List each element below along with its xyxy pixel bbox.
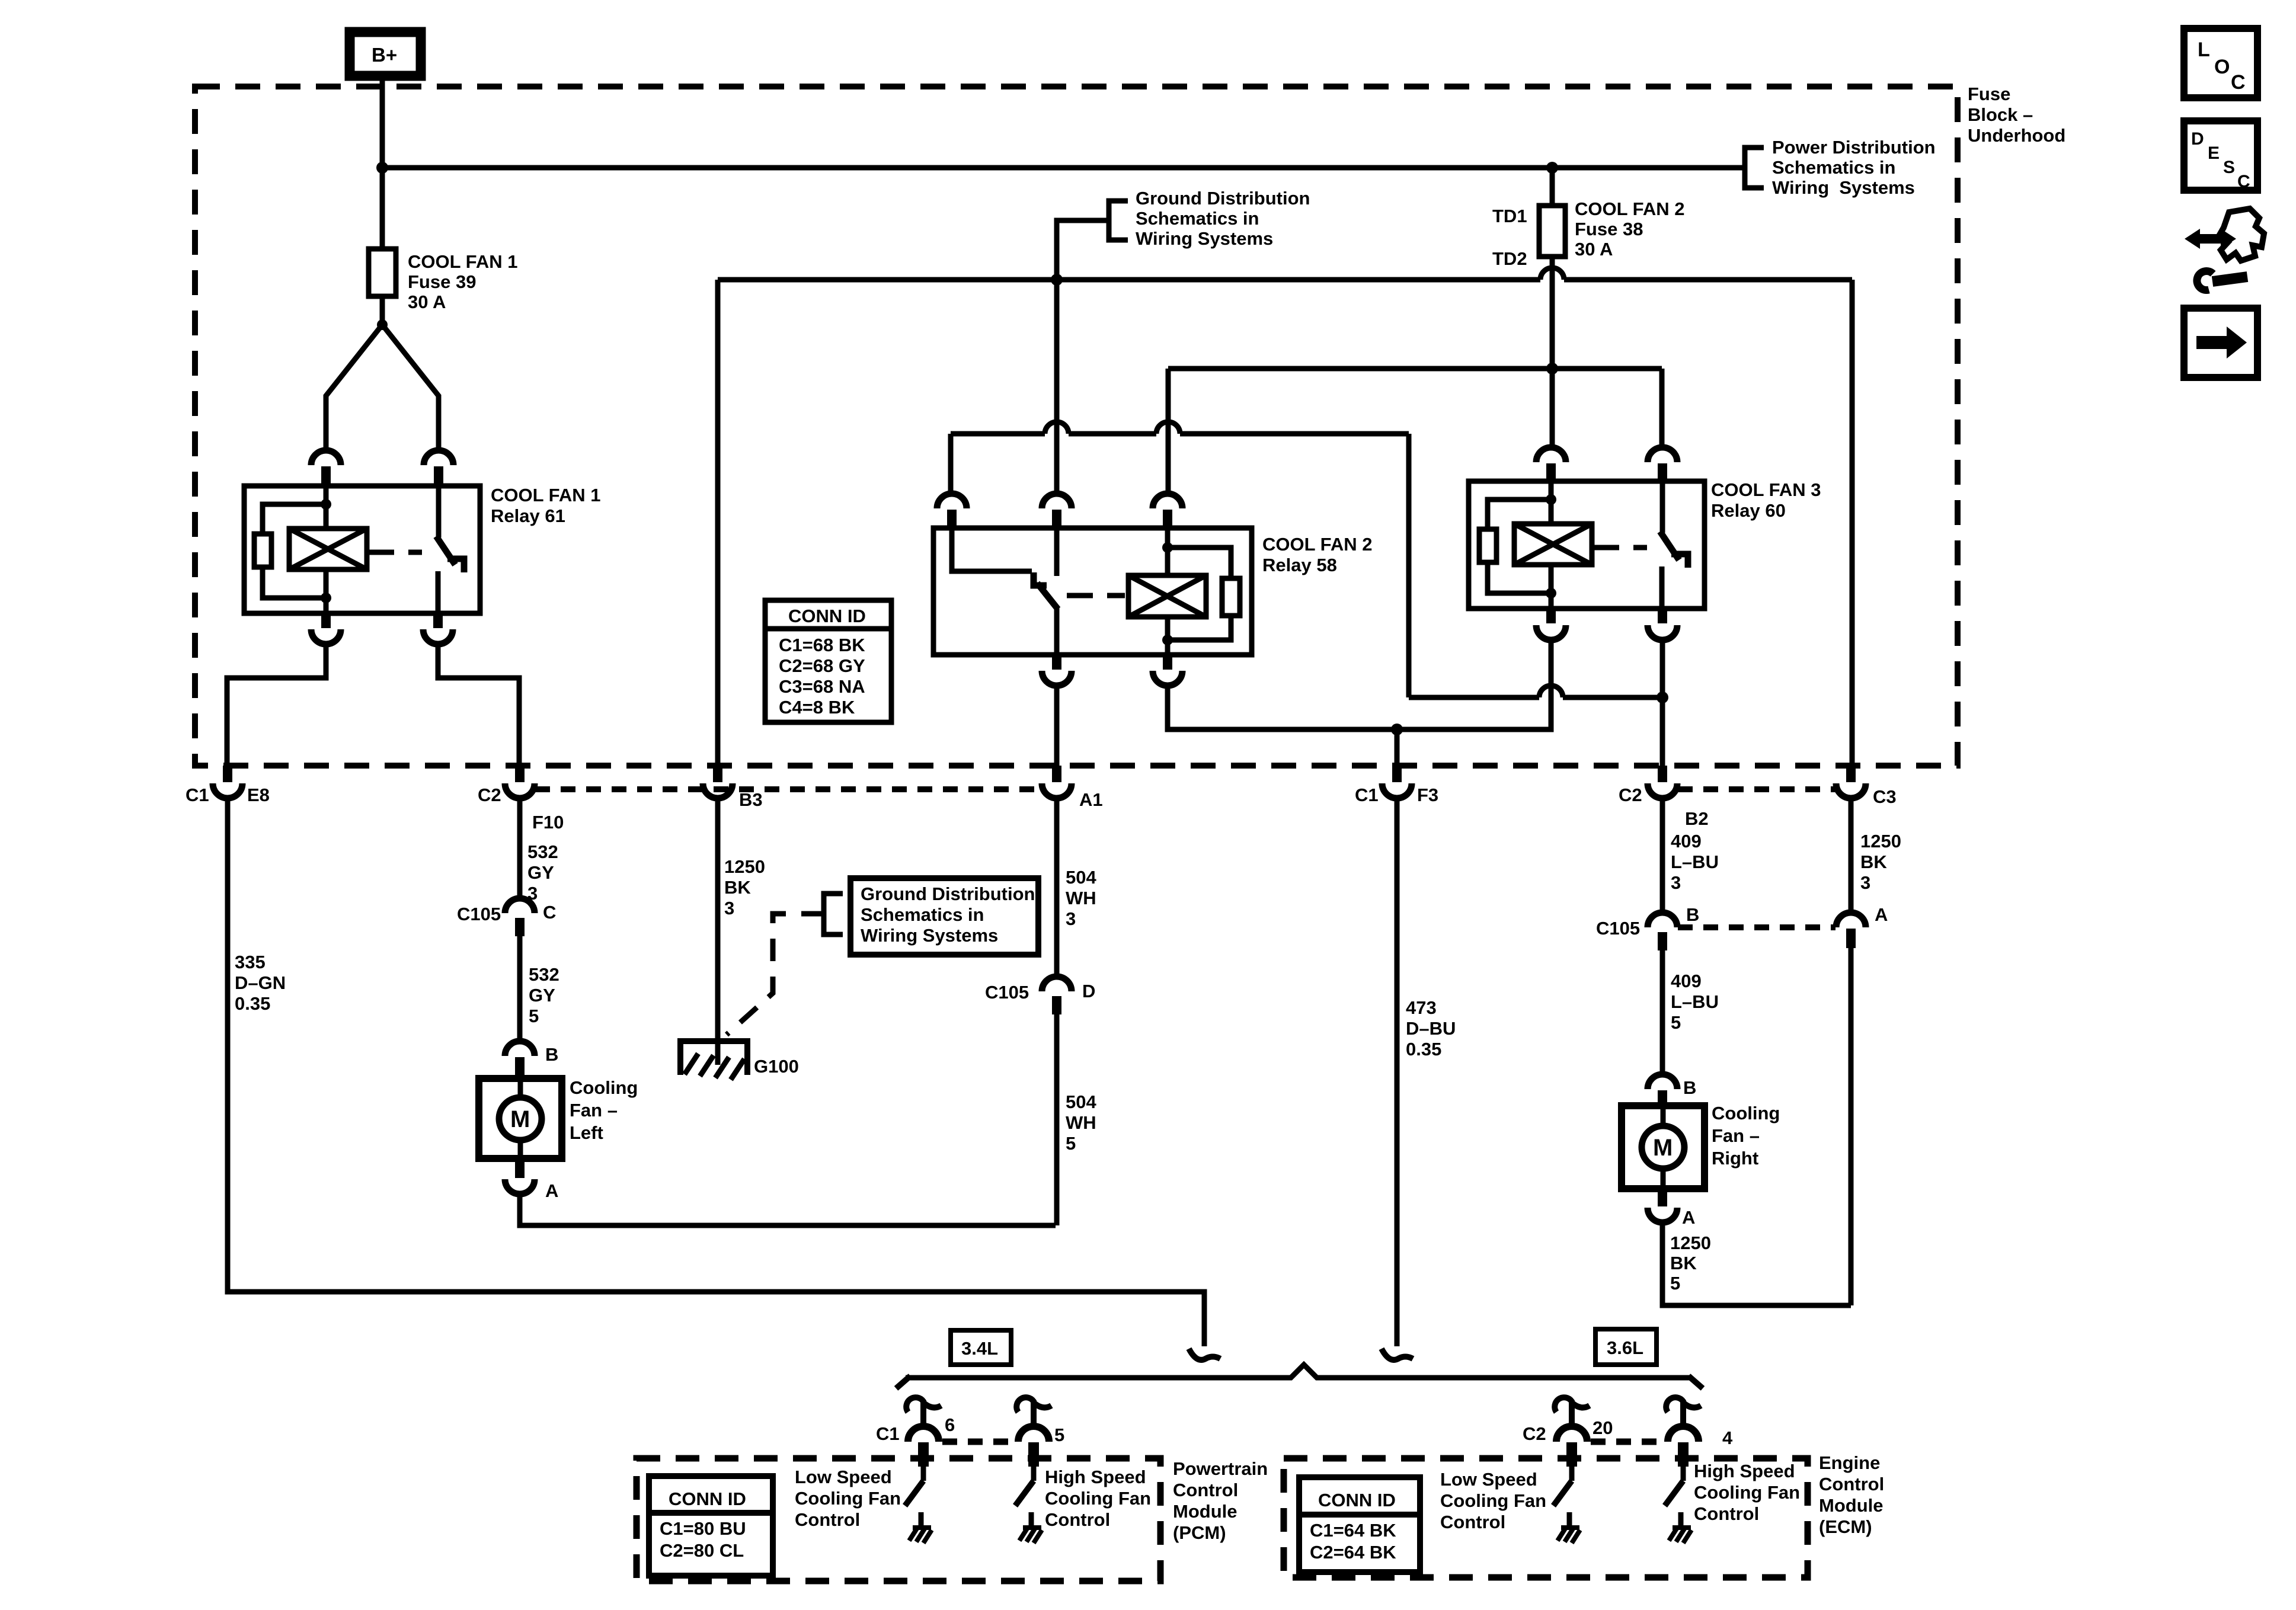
relay 61 pin 87 connector (bottom right) bbox=[423, 614, 453, 644]
connector C105 B labels bbox=[1596, 904, 1699, 939]
svg-text:0.35: 0.35 bbox=[235, 993, 270, 1014]
connector A1 label bbox=[1079, 789, 1103, 810]
wire 532 GY 5 from C105 C to fan motor bbox=[517, 936, 523, 1041]
icon arrow bbox=[2196, 327, 2247, 359]
PCM pin 5 connector bbox=[1018, 1426, 1049, 1442]
relay K60 COOL FAN 3 Relay 60 bbox=[1469, 481, 1705, 609]
svg-text:Cooling Fan: Cooling Fan bbox=[795, 1488, 901, 1509]
svg-text:Cooling Fan: Cooling Fan bbox=[1045, 1488, 1151, 1509]
fuse block underhood dashed border bbox=[195, 87, 1958, 766]
svg-text:L: L bbox=[2198, 39, 2210, 61]
ground G100 label bbox=[754, 1056, 799, 1077]
svg-text:Schematics in: Schematics in bbox=[1136, 208, 1259, 229]
svg-text:1250: 1250 bbox=[724, 856, 765, 877]
wire ground distribution down to relay 58 bbox=[1054, 280, 1060, 494]
connector B cooling fan right bbox=[1648, 1074, 1677, 1105]
fuse 39 value label bbox=[408, 251, 517, 312]
fuse F38 COOL FAN 2 bbox=[1539, 168, 1565, 257]
svg-text:COOL FAN 2: COOL FAN 2 bbox=[1575, 199, 1684, 219]
svg-text:GY: GY bbox=[527, 862, 554, 883]
relay 58 coil+ connector (top right) bbox=[1153, 494, 1182, 527]
svg-text:4: 4 bbox=[1722, 1427, 1733, 1448]
motor left M letter bbox=[510, 1106, 530, 1132]
relay 61 pin 85 connector (bottom left) bbox=[311, 614, 341, 644]
relay 60 actuator dashed link bbox=[1593, 545, 1647, 550]
svg-text:Cooling: Cooling bbox=[1712, 1103, 1780, 1124]
svg-text:A: A bbox=[545, 1180, 558, 1201]
ground distribution callout bracket (top) bbox=[1057, 201, 1128, 280]
node relay61 coil top junction bbox=[321, 499, 331, 510]
svg-text:D–GN: D–GN bbox=[235, 972, 286, 993]
relay 60 label bbox=[1711, 479, 1821, 521]
relay 58 switch out connector (bottom left) bbox=[1042, 656, 1072, 686]
icon DESC box bbox=[2184, 121, 2257, 190]
connector A label bbox=[545, 1180, 558, 1201]
wire C3 feed down bbox=[1850, 280, 1855, 766]
resistor relay 61 suppression bbox=[254, 534, 271, 567]
svg-text:1250: 1250 bbox=[1670, 1233, 1711, 1253]
svg-text:C1: C1 bbox=[1355, 785, 1379, 805]
wire relay58 coil- to relay60 coil- and F3 bbox=[1168, 640, 1551, 729]
svg-text:Control: Control bbox=[1173, 1480, 1238, 1500]
connector C105 C bbox=[505, 898, 535, 936]
svg-text:30 A: 30 A bbox=[408, 292, 446, 312]
svg-text:5: 5 bbox=[1670, 1273, 1680, 1294]
svg-text:C105: C105 bbox=[1596, 918, 1640, 939]
relay 61 coil wiring bbox=[263, 486, 326, 613]
svg-text:3: 3 bbox=[1066, 908, 1076, 929]
wire 504 WH 5 from C105 D down bbox=[1054, 1014, 1060, 1225]
svg-text:WH: WH bbox=[1066, 1112, 1096, 1133]
svg-text:M: M bbox=[1653, 1135, 1673, 1161]
relay 61 pin 85 connector (top right) bbox=[424, 450, 453, 485]
node F3 tap junction bbox=[1391, 724, 1403, 735]
connector C105 D labels bbox=[985, 981, 1095, 1003]
ECM high speed switch bbox=[1665, 1467, 1683, 1528]
svg-text:Relay 61: Relay 61 bbox=[491, 505, 565, 526]
wire down to relay 60 coil pin bbox=[1550, 369, 1555, 447]
svg-text:Low Speed: Low Speed bbox=[795, 1467, 892, 1487]
svg-text:Relay 60: Relay 60 bbox=[1711, 500, 1786, 521]
relay 58 switch out wire to A1 bbox=[1054, 686, 1060, 766]
relay K58 COOL FAN 2 Relay 58 bbox=[933, 528, 1252, 655]
icon DESC letters bbox=[2191, 129, 2250, 191]
PCM pin 6 labels bbox=[876, 1414, 955, 1444]
wire 473 D-BU from F3 to ECM harness bbox=[1395, 798, 1400, 1346]
relay 58 coil wiring bbox=[1168, 528, 1231, 655]
3.4L label bbox=[961, 1338, 998, 1359]
relay 60 coil+ connector (top left) bbox=[1536, 447, 1566, 480]
ground ECM high speed bbox=[1669, 1528, 1691, 1543]
wire 1250 BK from C105 A down and around bbox=[1849, 948, 1854, 1305]
svg-text:GY: GY bbox=[529, 985, 555, 1006]
svg-text:COOL FAN 1: COOL FAN 1 bbox=[408, 251, 517, 272]
resistor relay 58 suppression bbox=[1222, 578, 1240, 616]
connector C3 (fuse block) bbox=[1836, 766, 1866, 798]
ECM pin 4 lead hook bbox=[1666, 1397, 1701, 1426]
fuse 38 value label bbox=[1575, 199, 1684, 260]
PCM pin 5 label bbox=[1054, 1425, 1064, 1445]
wire label 473 D-BU 0.35 bbox=[1406, 997, 1456, 1060]
svg-text:532: 532 bbox=[529, 964, 559, 985]
wire label 1250 BK 3 (B3) bbox=[724, 856, 765, 918]
wire hop over relay60 coil bottom wire bbox=[1539, 686, 1563, 697]
PCM pin 6 terminal pin bbox=[918, 1442, 929, 1467]
svg-text:Fuse 39: Fuse 39 bbox=[408, 271, 476, 292]
wire 504 WH 5 from fan left A to A1 wire bbox=[520, 1194, 1056, 1225]
ECM pin 20 lead hook bbox=[1555, 1397, 1590, 1426]
motor M cooling fan left bbox=[479, 1078, 562, 1158]
node relay61 coil bottom junction bbox=[321, 593, 331, 603]
node B+ junction bbox=[376, 162, 388, 174]
svg-text:Right: Right bbox=[1712, 1148, 1758, 1169]
svg-text:BK: BK bbox=[1670, 1253, 1697, 1273]
svg-text:Cooling Fan: Cooling Fan bbox=[1694, 1482, 1800, 1503]
svg-text:3: 3 bbox=[1671, 872, 1681, 893]
dashed connector row B2 to C3 bbox=[1678, 786, 1836, 792]
wire 335 D-GN from C1 E8 to PCM harness bbox=[228, 798, 1204, 1346]
svg-text:D–BU: D–BU bbox=[1406, 1018, 1456, 1039]
ECM switch labels bbox=[1440, 1461, 1800, 1532]
ground distribution callout text (middle) bbox=[861, 884, 1035, 946]
ECM pin 20 terminal pin bbox=[1566, 1442, 1577, 1467]
wire label 409 L-BU 3 bbox=[1671, 831, 1719, 893]
ECM pin 20 labels bbox=[1523, 1417, 1613, 1444]
svg-text:C1: C1 bbox=[876, 1423, 900, 1444]
svg-text:F3: F3 bbox=[1417, 785, 1438, 805]
connector A label (fan right) bbox=[1682, 1207, 1695, 1228]
connector C1 E8 labels bbox=[186, 785, 270, 805]
wire hop over relay58 coil pin wire bbox=[1156, 422, 1180, 434]
power distribution callout text bbox=[1772, 137, 1936, 198]
relay 61 actuator dashed link bbox=[368, 550, 422, 555]
relay 61 coil bbox=[289, 529, 367, 569]
ground distribution callout text (top) bbox=[1136, 188, 1310, 249]
svg-text:Control: Control bbox=[1819, 1474, 1884, 1494]
power distribution callout bracket bbox=[1745, 148, 1764, 188]
icon component outline bbox=[2219, 209, 2264, 261]
svg-text:504: 504 bbox=[1066, 867, 1096, 888]
ECM pin 4 terminal pin bbox=[1678, 1442, 1689, 1467]
svg-text:Control: Control bbox=[1694, 1503, 1759, 1524]
svg-text:Control: Control bbox=[795, 1509, 860, 1530]
connector B label (fan right) bbox=[1683, 1077, 1696, 1098]
svg-text:5: 5 bbox=[1054, 1425, 1064, 1445]
svg-text:Schematics in: Schematics in bbox=[1772, 157, 1895, 178]
PCM module label bbox=[1173, 1458, 1268, 1543]
connector B label bbox=[545, 1044, 558, 1065]
svg-text:COOL FAN 1: COOL FAN 1 bbox=[491, 485, 600, 505]
node fuse 38 tap junction bbox=[1546, 162, 1558, 174]
relay 60 coil- connector (bottom left) bbox=[1536, 610, 1566, 640]
svg-text:C2: C2 bbox=[1619, 785, 1642, 805]
motor M cooling fan right bbox=[1622, 1106, 1705, 1189]
icon LOC box bbox=[2184, 28, 2257, 98]
relay 58 label bbox=[1262, 534, 1372, 575]
svg-text:409: 409 bbox=[1671, 831, 1702, 852]
svg-text:WH: WH bbox=[1066, 888, 1096, 908]
svg-text:C: C bbox=[543, 902, 556, 923]
connector A cooling fan right bbox=[1648, 1190, 1677, 1222]
relay 61 switch bbox=[436, 486, 464, 613]
svg-text:A1: A1 bbox=[1079, 789, 1103, 810]
svg-text:G100: G100 bbox=[754, 1056, 799, 1077]
cooling fan right label bbox=[1712, 1103, 1780, 1169]
3.6L engine tag box bbox=[1595, 1329, 1657, 1365]
PCM high speed switch bbox=[1015, 1467, 1034, 1528]
svg-text:C1=68 BK: C1=68 BK bbox=[779, 635, 865, 655]
svg-text:O: O bbox=[2214, 56, 2230, 78]
svg-text:C2=68 GY: C2=68 GY bbox=[779, 655, 865, 676]
connector C105 A label bbox=[1875, 904, 1888, 925]
ground ECM low speed bbox=[1558, 1528, 1580, 1543]
svg-text:Fan –: Fan – bbox=[570, 1100, 618, 1121]
svg-text:C3: C3 bbox=[1873, 786, 1897, 807]
connector C2 B2 labels bbox=[1619, 785, 1709, 829]
relay 58 switch contact connector (top left) bbox=[937, 494, 967, 527]
svg-text:5: 5 bbox=[529, 1006, 539, 1026]
svg-text:D: D bbox=[1082, 981, 1095, 1001]
svg-text:C4=8 BK: C4=8 BK bbox=[779, 697, 855, 718]
conn id table PCM text bbox=[660, 1489, 746, 1561]
relay 58 actuator dashed link bbox=[1067, 593, 1125, 598]
battery feed B+ bbox=[350, 32, 421, 76]
icon double arrow bbox=[2185, 229, 2236, 249]
connector A cooling fan left bbox=[505, 1160, 535, 1194]
wire label 1250 BK 5 bbox=[1670, 1233, 1711, 1294]
conn id table ECM text bbox=[1310, 1490, 1396, 1563]
svg-text:Ground Distribution: Ground Distribution bbox=[861, 884, 1035, 904]
wire fuse39 to Y split bbox=[380, 296, 385, 325]
resistor relay 60 suppression bbox=[1479, 529, 1496, 562]
connector C105 B bbox=[1648, 913, 1677, 950]
wire label 335 D-GN 0.35 bbox=[235, 952, 286, 1014]
svg-text:A: A bbox=[1875, 904, 1888, 925]
svg-text:Control: Control bbox=[1440, 1512, 1505, 1532]
PCM pin 6 connector bbox=[908, 1426, 939, 1442]
wire 1250 BK 3 from C3 to C105 A bbox=[1849, 798, 1854, 913]
relay 61 label bbox=[491, 485, 600, 526]
svg-text:BK: BK bbox=[1860, 852, 1887, 872]
dashed connector row pin20 to pin4 bbox=[1591, 1439, 1664, 1445]
relay 60 switch in connector (top right) bbox=[1648, 447, 1677, 480]
node B2 junction bbox=[1657, 692, 1668, 703]
ECM pin 4 label bbox=[1722, 1427, 1733, 1448]
ECM module dashed border bbox=[1284, 1458, 1808, 1577]
svg-text:Fuse 38: Fuse 38 bbox=[1575, 219, 1643, 239]
svg-text:5: 5 bbox=[1066, 1133, 1076, 1154]
wire Y right arm to relay 61 switch pin bbox=[382, 325, 439, 450]
svg-text:CONN ID: CONN ID bbox=[1318, 1490, 1396, 1510]
relay 61 coil wire to C1 E8 bbox=[227, 644, 326, 766]
svg-text:C2: C2 bbox=[1523, 1423, 1546, 1444]
svg-text:1250: 1250 bbox=[1860, 831, 1901, 852]
PCM low speed switch bbox=[905, 1467, 923, 1528]
ground distribution callout bracket (middle) bbox=[824, 894, 843, 934]
svg-text:Relay 58: Relay 58 bbox=[1262, 555, 1337, 575]
connector B3 (fuse block) bbox=[703, 766, 733, 798]
svg-text:COOL FAN 2: COOL FAN 2 bbox=[1262, 534, 1372, 555]
connector C1 F3 labels bbox=[1355, 785, 1438, 805]
svg-text:B: B bbox=[1686, 904, 1699, 925]
connector C105 A bbox=[1836, 913, 1866, 948]
svg-text:B3: B3 bbox=[739, 789, 763, 810]
connector C2 F10 labels bbox=[478, 785, 564, 833]
dashed connector row C105 B to A bbox=[1678, 924, 1835, 930]
wire label 532 GY 3 bbox=[527, 841, 558, 904]
ECM module label bbox=[1819, 1452, 1884, 1537]
svg-text:TD2: TD2 bbox=[1492, 248, 1527, 269]
wire end curl into harness (473 D-BU) bbox=[1382, 1349, 1413, 1360]
connector C2 B2 (fuse block) bbox=[1648, 766, 1677, 798]
svg-text:Left: Left bbox=[570, 1122, 603, 1143]
svg-text:L–BU: L–BU bbox=[1671, 991, 1719, 1012]
connector C105 C labels bbox=[457, 902, 556, 924]
engine harness line with brace bbox=[896, 1365, 1703, 1388]
svg-text:3: 3 bbox=[724, 898, 734, 918]
3.6L label bbox=[1607, 1337, 1643, 1358]
relay 60 switch out connector (bottom right) bbox=[1648, 610, 1677, 640]
wire 409 L-BU 5 from C105 B to fan right bbox=[1660, 950, 1665, 1075]
svg-text:3: 3 bbox=[1860, 872, 1870, 893]
svg-text:C2: C2 bbox=[478, 785, 501, 805]
svg-text:CONN ID: CONN ID bbox=[788, 606, 866, 626]
svg-text:20: 20 bbox=[1593, 1417, 1613, 1438]
wire end curl into harness (335 D-GN) bbox=[1189, 1349, 1220, 1360]
relay 58 coil- connector (bottom right) bbox=[1153, 656, 1182, 686]
wire relay58 NC bus to B2 net bbox=[951, 434, 1662, 697]
fuse F39 COOL FAN 1 bbox=[369, 249, 396, 296]
dashed connector row C2 to A1 bbox=[535, 786, 1041, 792]
relay 61 pin 86 connector (top left) bbox=[311, 450, 341, 485]
svg-text:A: A bbox=[1682, 1207, 1695, 1228]
node relay60 coil tap bbox=[1546, 363, 1558, 375]
svg-text:L–BU: L–BU bbox=[1671, 852, 1719, 872]
svg-text:D: D bbox=[2191, 129, 2204, 149]
svg-text:C1: C1 bbox=[186, 785, 209, 805]
svg-text:BK: BK bbox=[724, 877, 751, 898]
svg-text:0.35: 0.35 bbox=[1406, 1039, 1441, 1060]
relay 58 switch common connector (top middle) bbox=[1042, 494, 1072, 527]
svg-text:Low Speed: Low Speed bbox=[1440, 1469, 1537, 1490]
svg-text:C1=80 BU: C1=80 BU bbox=[660, 1518, 746, 1539]
svg-text:B2: B2 bbox=[1685, 808, 1709, 829]
svg-text:Cooling: Cooling bbox=[570, 1077, 638, 1098]
relay 58 switch wiring bbox=[952, 528, 1058, 655]
cooling fan left label bbox=[570, 1077, 638, 1143]
connector C3 label bbox=[1873, 786, 1897, 807]
svg-text:5: 5 bbox=[1671, 1012, 1681, 1033]
svg-text:504: 504 bbox=[1066, 1092, 1096, 1112]
svg-text:Control: Control bbox=[1045, 1509, 1110, 1530]
connector C1 F3 (fuse block) bbox=[1382, 766, 1412, 798]
node relay58 coil top junction bbox=[1162, 542, 1173, 553]
svg-text:C1=64 BK: C1=64 BK bbox=[1310, 1520, 1396, 1541]
svg-text:Wiring Systems: Wiring Systems bbox=[861, 925, 998, 946]
svg-text:Module: Module bbox=[1173, 1501, 1237, 1522]
wire label 1250 BK 3 (C3) bbox=[1860, 831, 1901, 893]
wire F3 tap down bbox=[1395, 729, 1400, 766]
wire 504 WH 3 from A1 to C105 D bbox=[1054, 798, 1060, 977]
svg-text:B: B bbox=[545, 1044, 558, 1065]
relay 58 coil bbox=[1128, 575, 1206, 617]
conn id table relay 58 text bbox=[779, 606, 866, 718]
svg-text:CONN ID: CONN ID bbox=[669, 1489, 746, 1509]
svg-text:6: 6 bbox=[945, 1414, 955, 1435]
svg-text:C2=80 CL: C2=80 CL bbox=[660, 1540, 744, 1561]
svg-text:(PCM): (PCM) bbox=[1173, 1522, 1226, 1543]
wire 409 L-BU 3 from B2 to C105 B bbox=[1660, 798, 1665, 913]
svg-text:Powertrain: Powertrain bbox=[1173, 1458, 1268, 1479]
conn id table relay 58 bbox=[765, 600, 891, 722]
svg-text:E8: E8 bbox=[247, 785, 270, 805]
svg-text:409: 409 bbox=[1671, 971, 1702, 991]
svg-text:Fan –: Fan – bbox=[1712, 1125, 1760, 1146]
relay K61 COOL FAN 1 Relay 61 bbox=[244, 486, 480, 613]
svg-text:C: C bbox=[2237, 172, 2250, 191]
dashed connector row pin6 to pin5 bbox=[942, 1439, 1015, 1445]
fuse block label bbox=[1968, 84, 2065, 146]
icon LOC letters bbox=[2198, 39, 2246, 94]
svg-text:COOL FAN 3: COOL FAN 3 bbox=[1711, 479, 1821, 500]
svg-text:Wiring Systems: Wiring Systems bbox=[1772, 177, 1915, 198]
fuse 38 terminal labels TD1 TD2 bbox=[1492, 206, 1527, 269]
svg-text:C: C bbox=[2231, 71, 2246, 94]
wire hop over relay58 mid pin wire bbox=[1045, 422, 1069, 434]
PCM switch labels bbox=[795, 1467, 1151, 1530]
svg-text:Schematics in: Schematics in bbox=[861, 904, 984, 925]
wire fuse38 bus to relays 58/60 bbox=[1168, 366, 1662, 372]
ground PCM low speed bbox=[909, 1528, 932, 1543]
connector B cooling fan left bbox=[505, 1041, 535, 1077]
wire label 409 L-BU 5 bbox=[1671, 971, 1719, 1033]
node relay60 coil bottom junction bbox=[1546, 588, 1556, 598]
connector C1 E8 (fuse block) bbox=[213, 766, 242, 798]
wire down to relay 58 coil pin bbox=[1166, 369, 1171, 494]
svg-text:3.6L: 3.6L bbox=[1607, 1337, 1643, 1358]
icon wrench bbox=[2197, 271, 2247, 290]
svg-text:TD1: TD1 bbox=[1492, 206, 1527, 226]
wire down to relay 60 switch pin bbox=[1659, 369, 1665, 447]
svg-text:High Speed: High Speed bbox=[1045, 1467, 1146, 1487]
wire B+ bus to power distribution bbox=[382, 165, 1745, 171]
ground G100 bbox=[680, 1041, 747, 1080]
PCM pin 5 terminal pin bbox=[1028, 1442, 1039, 1467]
ground distribution callout box (middle) bbox=[850, 878, 1038, 955]
relay 61 pin 87 wire to C2 F10 bbox=[438, 644, 519, 766]
wire label 504 WH 3 bbox=[1066, 867, 1096, 929]
wire Y left arm to relay 61 coil pin bbox=[326, 325, 382, 450]
dashed wire callout to G100 bbox=[727, 914, 824, 1035]
connector C105 D bbox=[1042, 977, 1072, 1014]
ground distribution feed horizontal (net to B3/C3) bbox=[718, 277, 1852, 283]
node ground distribution junction bbox=[1051, 274, 1063, 286]
svg-text:High Speed: High Speed bbox=[1694, 1461, 1795, 1481]
relay 60 switch out wire to B2 bbox=[1660, 640, 1665, 766]
svg-text:473: 473 bbox=[1406, 997, 1437, 1018]
ECM pin 4 connector bbox=[1668, 1426, 1699, 1442]
relay 60 coil wiring bbox=[1488, 481, 1551, 609]
ground PCM high speed bbox=[1019, 1528, 1042, 1543]
svg-text:Cooling Fan: Cooling Fan bbox=[1440, 1490, 1546, 1511]
wire label 532 GY 5 bbox=[529, 964, 559, 1026]
svg-text:532: 532 bbox=[527, 841, 558, 862]
PCM module dashed border bbox=[637, 1458, 1160, 1581]
svg-text:Module: Module bbox=[1819, 1495, 1884, 1516]
wire 532 GY 3 from C2 F10 to C105 C bbox=[517, 798, 523, 898]
svg-text:F10: F10 bbox=[532, 812, 564, 833]
PCM pin 6 lead hook bbox=[906, 1397, 941, 1426]
